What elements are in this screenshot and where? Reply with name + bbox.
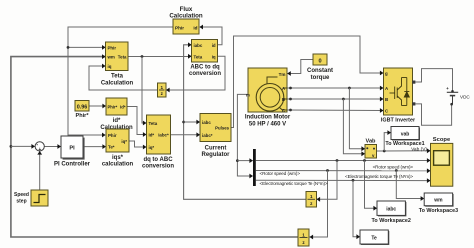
svg-text:conversion: conversion [189, 71, 221, 77]
svg-text:wm: wm [433, 198, 443, 204]
wire speed reference (Speed step up to sum) [39, 152, 41, 190]
wire id* (id* Calculation output to dq-ABC conversion) [127, 107, 146, 135]
measurement Vab [365, 145, 377, 159]
svg-text:g: g [385, 71, 388, 76]
svg-text:ABC to dq: ABC to dq [190, 64, 220, 70]
svg-text:iabc: iabc [386, 207, 396, 213]
svg-text:Te*: Te* [108, 145, 115, 150]
svg-text:Speed: Speed [14, 192, 29, 198]
svg-text:wm: wm [107, 55, 115, 60]
wire iq* (iqs* calculation output to dq-ABC conversion) [129, 141, 146, 147]
unit delay 1/z (iabc feedback) [306, 192, 317, 208]
svg-text:Current: Current [205, 145, 227, 151]
block Current Regulator [200, 114, 231, 142]
svg-text:Pulses: Pulses [215, 126, 229, 131]
wire Pulses (Current Regulator output up and over to IGBT Inverter g input) [231, 36, 383, 128]
svg-text:Phir: Phir [108, 133, 117, 138]
svg-text:iabc: iabc [194, 43, 203, 48]
constant Constant torque [313, 54, 327, 65]
wire Te* (PI Controller output to iqs* calculation) [83, 146, 105, 148]
svg-text:<Rotor speed (wm)>: <Rotor speed (wm)> [260, 171, 301, 176]
svg-text:dq to ABC: dq to ABC [143, 157, 173, 163]
wire iq (ABC-dq iq output through unit delay to Teta Calculation) [166, 56, 225, 90]
svg-text:Calculation: Calculation [101, 80, 134, 86]
unit delay 1/z (wm feedback) [298, 229, 309, 246]
svg-text:iabc: iabc [202, 120, 211, 125]
svg-text:Phir*: Phir* [75, 113, 89, 119]
svg-text:Calculation: Calculation [169, 12, 203, 19]
source VDC battery [447, 91, 458, 93]
svg-text:1: 1 [310, 194, 313, 199]
svg-text:Tm: Tm [279, 72, 286, 77]
source Speed step [31, 190, 48, 206]
block Flux Calculation [173, 19, 199, 34]
svg-text:id: id [212, 43, 216, 48]
svg-text:vab: vab [401, 131, 410, 137]
block To Workspace3 (wm) [425, 194, 453, 207]
svg-text:iqs*: iqs* [112, 155, 124, 161]
svg-text:VDC: VDC [460, 94, 470, 99]
wire iabc feedback (unit delay output to ABC-dq conversion and Current Regulator) [184, 45, 306, 200]
block dq to ABC conversion [147, 115, 171, 154]
wire m (Induction Motor measurement output to demux bar) [237, 94, 252, 176]
svg-text:Phir*: Phir* [108, 104, 118, 109]
svg-text:id: id [193, 26, 197, 31]
block Induction Motor 50 HP / 460 V [248, 68, 287, 112]
svg-text:Te: Te [371, 236, 377, 242]
svg-text:Vab (V): Vab (V) [411, 147, 427, 153]
svg-text:<Electromagnetic torque Te (N*: <Electromagnetic torque Te (N*m)> [345, 174, 413, 179]
svg-text:Induction Motor: Induction Motor [245, 115, 291, 121]
svg-text:B: B [385, 97, 388, 102]
wire Te to To Workspace (Te) [353, 180, 359, 236]
block To Workspace (Te) [361, 231, 389, 245]
svg-text:Scope: Scope [433, 137, 451, 143]
svg-text:<Rotor speed (wm)>: <Rotor speed (wm)> [373, 164, 414, 169]
svg-text:Teta: Teta [118, 55, 127, 60]
svg-text:iq: iq [212, 54, 216, 59]
svg-text:<Electromagnetic torque Te (N*: <Electromagnetic torque Te (N*m)> [260, 181, 328, 186]
wire wm to unit delay [310, 171, 328, 238]
svg-text:Phir: Phir [175, 26, 184, 31]
wire iabc* (dq-ABC conversion output to Current Regulator) [171, 134, 200, 136]
svg-text:Teta: Teta [194, 54, 203, 59]
svg-text:conversion: conversion [142, 164, 174, 170]
svg-text:PI: PI [69, 145, 75, 151]
constant Phir* 0.96 [75, 101, 89, 112]
svg-text:iabc*: iabc* [158, 133, 169, 138]
svg-text:Vab: Vab [366, 138, 377, 144]
svg-text:1: 1 [302, 232, 305, 237]
wire Phir* (constant 0.96 to id* Calculation) [89, 105, 105, 107]
sum junction [35, 142, 44, 151]
wire id (ABC-dq id output up to Flux Calculation input) [200, 27, 222, 45]
wire DC + (IGBT Inverter + terminal to VDC source) [416, 69, 453, 92]
svg-text:calculation: calculation [102, 162, 134, 168]
svg-text:Teta: Teta [111, 74, 124, 80]
svg-text:m: m [246, 93, 250, 98]
wire wm to To Workspace3 [396, 171, 423, 199]
svg-text:Regulator: Regulator [201, 152, 230, 158]
wire wm feedback (unit delay output to Teta Calculation wm input and speed sum) [11, 57, 298, 237]
wire phase B (motor B to inverter B) [287, 98, 383, 100]
svg-text:iq*: iq* [149, 145, 155, 150]
svg-text:id*: id* [120, 104, 126, 109]
block id* Calculation [106, 98, 127, 115]
wire phase C (motor C to inverter C) [287, 109, 383, 112]
block Teta Calculation [106, 42, 129, 71]
svg-text:iabc*: iabc* [202, 133, 213, 138]
wire Vab + tap (phase A down to Vab measurement) [349, 88, 364, 149]
wire iabc to To Workspace2 [365, 161, 377, 209]
block iqs* calculation [106, 129, 129, 152]
svg-text:iq: iq [108, 64, 112, 69]
wire Teta (Teta Calculation output to ABC-dq and dq-ABC conversions) [128, 56, 191, 58]
wire Electromagnetic torque Te (demux to scope input 4) [256, 179, 430, 181]
svg-text:1: 1 [160, 85, 163, 90]
block To Workspace1 (vab) [392, 128, 420, 141]
svg-text:PI Controller: PI Controller [54, 161, 91, 167]
scope Scope [431, 143, 453, 186]
demux bar (machines measurement demux) [253, 149, 256, 186]
wire iabc measurement (demux to scope input 2) [256, 160, 430, 162]
block ABC to dq conversion [192, 40, 218, 63]
svg-text:To Workspace3: To Workspace3 [419, 208, 458, 214]
svg-text:step: step [16, 198, 26, 204]
block PI Controller [63, 138, 85, 160]
wire DC - (IGBT Inverter - terminal to VDC source) [416, 104, 452, 125]
wire vab (Vab measurement output to scope input 1 and To Workspace1) [377, 150, 430, 152]
wire Phir feedback (Flux Calculation output to Teta Calculation and iqs* calculation) [68, 27, 173, 135]
svg-text:iq*: iq* [121, 139, 127, 144]
svg-text:B: B [282, 97, 285, 102]
svg-text:50 HP / 460 V: 50 HP / 460 V [249, 122, 286, 128]
wire phase A (motor A to inverter A) [287, 87, 383, 89]
svg-text:id*: id* [113, 118, 121, 124]
wire Tm (Constant torque to Induction Motor Tm input) [288, 60, 313, 74]
wire speed error (sum to PI Controller) [44, 146, 60, 148]
wire Rotor speed wm (demux to scope input 3) [256, 170, 430, 172]
unit delay 1/z (iq feedback) [158, 83, 167, 97]
svg-text:Teta: Teta [149, 121, 158, 126]
svg-text:Phir: Phir [108, 46, 117, 51]
svg-text:+: + [38, 147, 41, 153]
svg-text:To Workspace1: To Workspace1 [385, 141, 424, 147]
svg-text:+: + [446, 86, 449, 91]
svg-text:0.96: 0.96 [77, 105, 88, 111]
svg-text:Constant: Constant [307, 68, 333, 74]
block IGBT Inverter [384, 68, 413, 115]
svg-text:id*: id* [149, 133, 155, 138]
svg-text:0: 0 [318, 58, 321, 64]
svg-text:To Workspace2: To Workspace2 [372, 218, 411, 224]
block To Workspace2 (iabc) [378, 202, 406, 216]
wire iabc to unit delay [317, 161, 337, 200]
svg-text:torque: torque [311, 75, 330, 81]
svg-text:IGBT Inverter: IGBT Inverter [381, 118, 416, 124]
wire Vab - tap (phase B down to Vab measurement) [343, 99, 364, 154]
